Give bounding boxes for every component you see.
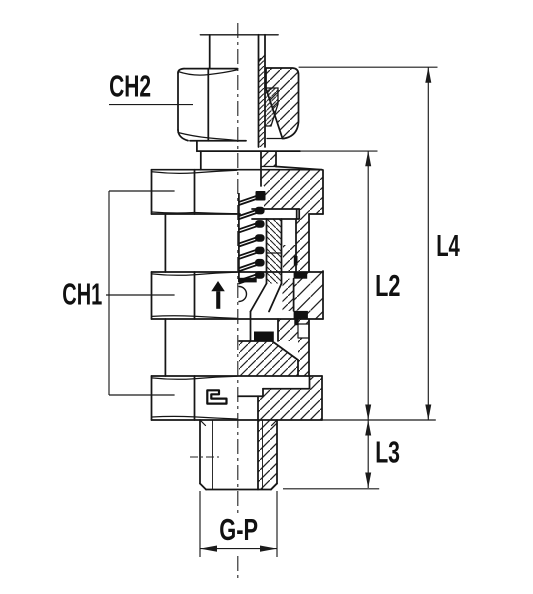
svg-text:CH1: CH1: [62, 277, 102, 311]
svg-text:L2: L2: [375, 269, 400, 303]
svg-text:G-P: G-P: [219, 513, 258, 547]
svg-text:CH2: CH2: [109, 70, 151, 104]
svg-text:L3: L3: [375, 436, 400, 470]
svg-text:L4: L4: [436, 229, 460, 263]
